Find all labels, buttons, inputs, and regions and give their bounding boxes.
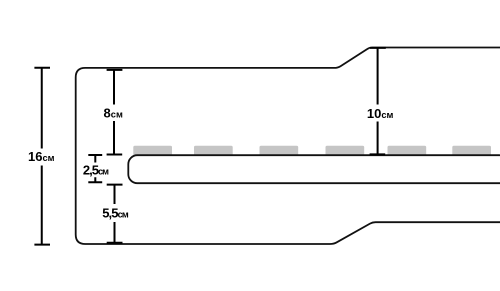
svg-text:5,5см: 5,5см: [102, 205, 129, 220]
pad 1: [133, 146, 172, 156]
outer profile: [76, 48, 500, 245]
svg-text:10см: 10см: [367, 106, 394, 121]
svg-text:2,5см: 2,5см: [83, 163, 109, 178]
dimension 5,5cm line: [107, 185, 123, 243]
inner bar: [128, 155, 500, 183]
pad 6: [452, 146, 491, 156]
pad 5: [388, 146, 427, 156]
pad 2: [194, 146, 233, 156]
dimension 2,5cm line: [88, 155, 102, 182]
pad 4: [326, 146, 365, 156]
svg-text:16см: 16см: [28, 149, 55, 164]
pad 3: [260, 146, 299, 156]
dimension 16cm line: [34, 68, 50, 245]
dimension 10cm line: [370, 48, 386, 154]
svg-text:8см: 8см: [104, 106, 123, 121]
dimension 8cm line: [107, 70, 123, 155]
